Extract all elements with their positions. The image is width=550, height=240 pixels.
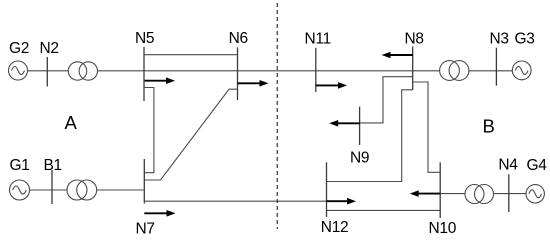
node N11 busbar [315,48,317,92]
transformer T1 (N2-N5) [68,62,97,80]
wire: top feeder G2-N5-N6-N11-N8-N3 [28,70,513,72]
flow arrow at N12 (right) [327,198,357,205]
svg-text:B1: B1 [44,157,62,174]
svg-text:G2: G2 [9,40,29,57]
svg-text:N7: N7 [136,221,155,238]
svg-text:N10: N10 [429,220,457,237]
wire: N8 to N10 link [413,82,441,172]
flow arrow at N9 (left) [329,120,359,127]
svg-text:N11: N11 [305,30,331,47]
node N7 busbar [143,159,145,204]
svg-text:G4: G4 [527,157,548,174]
svg-text:N12: N12 [321,219,349,236]
svg-text:N4: N4 [498,157,518,174]
svg-text:B: B [483,115,495,136]
flow arrow at N7 (right) [144,210,175,217]
node N6 busbar [237,48,239,101]
flow arrow at N11 (right) [316,82,347,89]
flow arrow at N5 (right) [145,77,175,84]
flow arrow at N8 (left) [382,52,413,59]
wire: bottom feeder G1-B1-N7 [30,189,145,191]
node N10 busbar [439,162,441,218]
node N8 busbar [412,47,414,91]
flow arrow at N6 (right) [238,80,269,87]
wire: N8 to N9 link [360,77,413,123]
node N9 busbar [359,107,361,145]
generator G4 symbol [526,185,544,203]
svg-text:N2: N2 [40,40,59,57]
svg-text:N9: N9 [350,150,369,167]
wire: N5 to N7 link [144,88,154,173]
node N5 busbar [143,47,145,101]
wire: N7 to N12 [144,200,326,202]
transformer T4 (N10-N4) [465,185,494,204]
node N2 busbar [46,57,48,87]
wire: second circuit N5-N6 upper line [144,54,238,56]
svg-text:G1: G1 [10,157,30,174]
svg-text:G3: G3 [515,30,535,47]
node N4 busbar [508,174,510,212]
svg-text:A: A [65,112,78,133]
transformer T3 (N8-N3) [440,61,469,81]
generator G3 symbol [512,61,531,80]
wire: N10 to G4 [440,193,526,195]
svg-text:N6: N6 [229,30,248,47]
generator G2 symbol [9,61,28,80]
node N3 busbar [495,48,497,86]
node B1 busbar [51,170,53,204]
transformer T2 (B1-N7) [67,180,97,200]
wire: N6 to N7 diagonal link [144,89,237,180]
node N12 busbar [326,162,328,217]
svg-text:N3: N3 [490,30,509,47]
wire: N8 to N12 link [327,90,413,182]
wire: N12 to N10 [327,209,441,211]
svg-text:N5: N5 [135,30,154,47]
generator G1 symbol [10,180,30,200]
svg-text:N8: N8 [405,30,424,47]
flow arrow at N10 (left) [410,190,441,197]
boundary dashed line between area A and B [276,3,278,229]
